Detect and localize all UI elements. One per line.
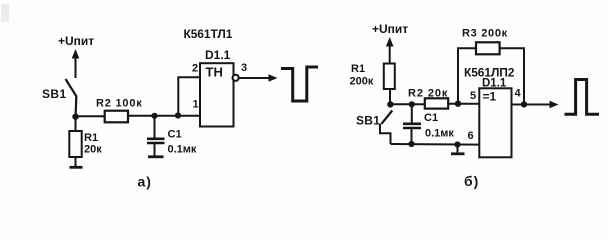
node junction C1 (a)	[151, 113, 157, 119]
svg-text:SB1: SB1	[42, 87, 67, 101]
wire R1 to ground (a)	[75, 157, 77, 167]
label C1 0.1мк (b)	[424, 112, 454, 140]
node junction SB1/R1/R2 (a)	[72, 114, 78, 120]
node junction pin6/ground on rail (b)	[454, 141, 460, 147]
svg-text:+Uпит: +Uпит	[58, 34, 94, 48]
svg-text:б): б)	[464, 173, 479, 189]
ground symbol (b)	[451, 145, 465, 154]
waveform positive pulse (b)	[565, 80, 600, 115]
node junction feedback/output (b)	[521, 101, 527, 107]
svg-text:R1: R1	[84, 132, 98, 144]
svg-text:5: 5	[470, 90, 476, 102]
node junction pin 5 / feedback (b)	[455, 101, 461, 107]
svg-text:ТН: ТН	[206, 65, 223, 80]
svg-text:R2 100к: R2 100к	[96, 98, 143, 110]
switch SB1 blade (b)	[381, 111, 392, 125]
switch SB1 fixed contact wire (b)	[380, 124, 391, 144]
label R1 20к (a)	[84, 132, 102, 156]
svg-text:C1: C1	[424, 112, 438, 124]
wire R2 to pin 5 (b)	[448, 103, 480, 105]
resistor R2 (a)	[105, 111, 128, 123]
svg-text:R2 20к: R2 20к	[408, 88, 448, 100]
wire supply arrow (a)	[72, 49, 80, 78]
wire bottom rail (b)	[391, 143, 480, 146]
wire supply arrow (b)	[386, 37, 394, 64]
svg-text:0.1мк: 0.1мк	[168, 144, 197, 156]
svg-text:R3 200к: R3 200к	[462, 28, 508, 40]
svg-text:R1: R1	[351, 63, 365, 75]
wire node to R1 (a)	[75, 117, 77, 131]
svg-text:0.1мк: 0.1мк	[425, 128, 454, 140]
resistor R1 (a)	[69, 131, 81, 157]
scan smudge top-left	[1, 4, 9, 22]
wire feedback left vertical (b)	[458, 48, 476, 103]
svg-text:4: 4	[515, 88, 522, 100]
node junction C1 bottom on rail (b)	[408, 141, 414, 147]
svg-text:а): а)	[138, 174, 152, 190]
node junction pin2 branch (a)	[175, 112, 181, 118]
resistor R1 (b)	[384, 64, 395, 90]
wire R2 to pin 1 (a)	[128, 115, 201, 117]
wire R1 to node (b)	[389, 89, 391, 105]
inversion bubble pin 3 (a)	[233, 75, 239, 81]
svg-text:К561ТЛ1: К561ТЛ1	[184, 27, 233, 41]
svg-text:200к: 200к	[350, 76, 374, 88]
wire node to R2 (b)	[390, 103, 424, 105]
label R1 200к (b)	[350, 63, 374, 88]
wire pin 2 branch (a)	[178, 77, 200, 115]
wire output arrow (a)	[239, 74, 278, 81]
svg-text:6: 6	[468, 130, 474, 142]
capacitor C1 (a)	[147, 116, 165, 156]
wire feedback right vertical (b)	[500, 48, 524, 104]
svg-text:3: 3	[241, 62, 247, 74]
node junction R1/R2/SB1 (b)	[387, 101, 393, 107]
svg-text:+Uпит: +Uпит	[372, 22, 408, 36]
switch SB1 (a)	[66, 79, 77, 117]
capacitor C1 (b)	[403, 104, 421, 144]
gate D1.1 body К561ТЛ1 (a)	[200, 63, 234, 126]
svg-text:2: 2	[192, 63, 198, 75]
ground bar under C1 (a)	[148, 155, 164, 158]
svg-text:=1: =1	[483, 90, 497, 104]
svg-text:SB1: SB1	[356, 114, 380, 128]
ground bar under R1 (a)	[70, 166, 83, 169]
node junction C1 top (b)	[409, 101, 415, 107]
svg-text:D1.1: D1.1	[205, 48, 231, 62]
svg-text:20к: 20к	[84, 144, 102, 156]
wire node to R2 (a)	[76, 115, 106, 117]
wire output arrow (b)	[512, 101, 559, 108]
resistor R3 (b)	[476, 42, 500, 54]
resistor R2 (b)	[425, 98, 448, 108]
gate D1.1 body К561ЛП2 (b)	[479, 88, 511, 157]
svg-text:C1: C1	[168, 129, 182, 141]
svg-text:1: 1	[193, 99, 199, 111]
label C1 0.1мк (a)	[168, 129, 197, 156]
waveform negative pulse (a)	[281, 67, 318, 101]
